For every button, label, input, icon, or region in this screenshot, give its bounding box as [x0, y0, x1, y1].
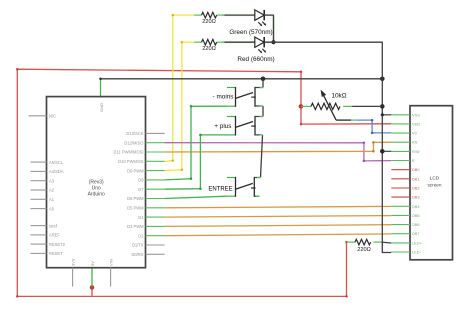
- svg-text:220Ω: 220Ω: [202, 19, 216, 25]
- wire green D6 to button ENTREE: [165, 196, 227, 198]
- svg-text:D2: D2: [138, 233, 144, 238]
- wire black cathode junction to right column: [264, 42, 391, 252]
- svg-text:(Rev3): (Rev3): [89, 179, 104, 185]
- svg-text:DB6: DB6: [412, 222, 420, 227]
- svg-text:5V: 5V: [90, 261, 95, 266]
- wire yellow D9 to red LED resistor: [165, 42, 195, 170]
- svg-text:Arduino: Arduino: [88, 192, 105, 198]
- Arduino right pins: leads: [146, 133, 165, 254]
- svg-text:A1: A1: [49, 197, 55, 202]
- svg-text:Uno: Uno: [92, 185, 101, 191]
- svg-text:D10 PWM/SS: D10 PWM/SS: [118, 159, 144, 164]
- svg-text:D3 PWM: D3 PWM: [127, 224, 144, 229]
- svg-text:LCD: LCD: [430, 175, 440, 180]
- svg-text:D13/SCK: D13/SCK: [126, 131, 143, 136]
- wire orange D5 to LCD DB4: [165, 206, 392, 207]
- svg-text:D0/RX: D0/RX: [131, 252, 143, 257]
- Arduino left pin labels: [49, 114, 66, 257]
- resistor R3 220 ohm (LCD backlight): [347, 239, 392, 253]
- svg-text:D5 PWM: D5 PWM: [127, 206, 144, 211]
- LED D2 red 660nm: [224, 37, 274, 63]
- potentiometer 10k: [301, 90, 382, 121]
- svg-text:D11 PWM/MOSI: D11 PWM/MOSI: [114, 150, 144, 155]
- svg-text:+ plus: + plus: [214, 123, 231, 130]
- LCD pin labels: [412, 112, 423, 254]
- svg-text:E: E: [412, 158, 415, 163]
- svg-text:VSS: VSS: [412, 112, 420, 117]
- svg-text:VDD: VDD: [412, 121, 420, 126]
- resistor R1 220 ohm (green LED): [194, 12, 224, 25]
- svg-text:Red (660nm): Red (660nm): [237, 56, 274, 63]
- svg-text:VIN: VIN: [109, 259, 114, 266]
- svg-text:RESET: RESET: [49, 251, 63, 256]
- wire magenta D12 to LCD E: [165, 143, 392, 161]
- svg-text:V0: V0: [412, 131, 418, 136]
- svg-text:A3: A3: [49, 178, 55, 183]
- svg-text:3V3: 3V3: [71, 258, 76, 266]
- svg-text:DB2: DB2: [412, 186, 420, 191]
- wire red 5V net left/top: [17, 69, 391, 296]
- node junction GND / R-W: [380, 149, 385, 154]
- svg-text:AREF: AREF: [49, 233, 60, 238]
- Arduino right pin labels: [114, 131, 145, 257]
- wire green 5V pin overlay: [91, 268, 93, 288]
- wire black GND to LCD VSS: [382, 114, 391, 116]
- svg-text:A0: A0: [49, 206, 55, 211]
- svg-text:- moins: - moins: [213, 93, 234, 100]
- wire orange D3 to LCD DB6: [165, 225, 392, 227]
- node red junction at pot left: [299, 104, 304, 109]
- resistor R2 220 ohm (red LED): [194, 39, 224, 52]
- wire green GND pin up: [100, 79, 102, 98]
- svg-text:D9 PWM: D9 PWM: [127, 168, 144, 173]
- svg-text:D4: D4: [138, 215, 144, 220]
- svg-text:R/W: R/W: [412, 149, 420, 154]
- node red junction at 5V pin: [90, 285, 95, 290]
- svg-text:D6 PWM: D6 PWM: [127, 196, 144, 201]
- LCD pin leads: [391, 115, 410, 252]
- node junction GND bus / LED cathode column: [380, 77, 385, 82]
- pushbutton ENTREE: [208, 177, 260, 197]
- svg-text:RS: RS: [412, 140, 418, 145]
- node junction LED cathodes: [271, 40, 275, 44]
- svg-text:ENTREE: ENTREE: [208, 186, 232, 192]
- wire orange D4 to LCD DB5: [165, 216, 392, 218]
- node red bendpoints: [16, 68, 348, 298]
- svg-text:GND: GND: [99, 103, 104, 112]
- svg-text:DB5: DB5: [412, 213, 420, 218]
- Arduino left pins (gray leads): [29, 116, 47, 254]
- svg-text:screen: screen: [427, 182, 441, 187]
- svg-text:D12/MISO: D12/MISO: [124, 140, 143, 145]
- pushbutton plus: [214, 116, 263, 136]
- Arduino bottom pins: [73, 268, 111, 287]
- wire black green-LED cathode to junction: [264, 15, 273, 42]
- svg-text:LED-: LED-: [412, 250, 422, 255]
- LCD screen U2 body: [410, 106, 453, 260]
- svg-text:10kΩ: 10kΩ: [331, 93, 346, 100]
- svg-text:A2: A2: [49, 188, 55, 193]
- wire green D7 to button plus: [165, 135, 227, 189]
- svg-text:ioref: ioref: [49, 223, 58, 228]
- svg-text:DB1: DB1: [412, 176, 420, 181]
- svg-text:N/C: N/C: [49, 114, 56, 119]
- node junction GND bus / buttons: [261, 77, 266, 82]
- wire orange D2 to LCD DB7: [165, 234, 392, 236]
- svg-text:A5/SCL: A5/SCL: [49, 160, 64, 165]
- svg-text:RESET2: RESET2: [49, 242, 66, 247]
- node junction GND / pot right: [380, 104, 385, 109]
- wire green D8 to button moins: [165, 106, 227, 180]
- svg-text:A4/SDA: A4/SDA: [49, 169, 64, 174]
- svg-text:Green (570nm): Green (570nm): [229, 29, 272, 36]
- svg-text:220Ω: 220Ω: [202, 46, 216, 52]
- Arduino Uno U1 body: [47, 97, 146, 268]
- wire yellow D10 to green LED resistor: [165, 15, 195, 161]
- svg-text:220Ω: 220Ω: [357, 247, 371, 253]
- svg-text:DB3: DB3: [412, 195, 420, 200]
- svg-text:DB4: DB4: [412, 204, 420, 209]
- svg-text:DB7: DB7: [412, 231, 420, 236]
- wire orange D11 to LCD RS: [165, 142, 392, 152]
- wire black GND to LCD R/W: [382, 150, 391, 152]
- wire black button chain verticals: [261, 79, 264, 178]
- wire black GND bus top: [101, 78, 383, 80]
- svg-text:DB0: DB0: [412, 167, 420, 172]
- svg-text:D8: D8: [138, 178, 144, 183]
- LED D1 green 570nm: [224, 10, 272, 36]
- wire blue pot wiper to LCD V0: [357, 120, 391, 133]
- svg-text:LED+: LED+: [412, 240, 423, 245]
- svg-text:D7: D7: [138, 187, 144, 192]
- pushbutton moins: [213, 87, 263, 107]
- svg-text:D1/TX: D1/TX: [132, 243, 144, 248]
- wire green glow LED rows: [222, 15, 274, 42]
